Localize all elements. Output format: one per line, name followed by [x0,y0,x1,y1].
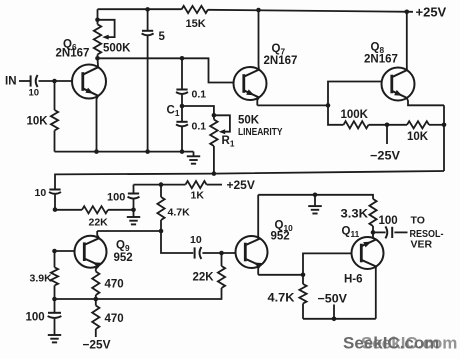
wire coupling cap to Q10 base [202,252,235,254]
svg-text:100: 100 [379,215,398,227]
wire Q11 top lead [373,232,376,239]
label 470 upper [105,279,124,291]
svg-text:IN: IN [5,76,17,88]
label 10 input cap [29,88,40,99]
label LINEARITY [238,126,283,138]
svg-text:Q11: Q11 [342,226,360,240]
svg-text:22K: 22K [89,217,109,229]
junction IN/10K/base [52,79,57,84]
svg-text:470: 470 [105,279,124,291]
wire C1 lower lead [181,127,183,152]
label TO [411,215,425,227]
label 3.9K [30,273,53,285]
label Q7 type [264,55,298,67]
resistor 10K right [387,121,444,128]
svg-text:+25V: +25V [227,178,255,192]
junction 100cap node [131,208,136,213]
label 22K vertical [193,272,215,284]
label 5 value [159,31,166,43]
svg-text:2N167: 2N167 [264,55,298,67]
svg-text:4.7K: 4.7K [168,207,191,219]
wire Q10 collector row [258,195,373,199]
svg-text:C1: C1 [167,105,180,119]
label Q8 type [364,54,398,66]
wire C1 upper lead [181,58,183,89]
wire Q6 emitter lead [97,96,99,152]
wire Q7 emitter lead [257,97,259,105]
wire Q10 collector lead [258,195,260,239]
svg-text:−50V: −50V [318,292,348,306]
junction Q11 base node [301,273,306,278]
svg-text:0.1: 0.1 [192,121,207,133]
junction rail / R1 bottom [212,171,217,176]
wire -25V stub [386,125,388,144]
label Q11 type H-6 [344,274,363,286]
svg-text:0.1: 0.1 [192,89,207,101]
svg-text:TO: TO [411,215,425,227]
wire output node [373,231,386,233]
label 470 lower [105,313,124,325]
wire Q9 emitter lead [96,265,99,271]
junction Q9 collector node [159,229,164,234]
junction top rail / Q8 collector (+25V) [405,10,410,15]
junction node A / C1 branch [180,56,185,61]
wire 100cap lower lead [133,199,135,209]
capacitor 100 bottom-left [48,313,62,318]
label VER [411,239,433,251]
wire 4.7K node down [161,231,193,253]
svg-text:470: 470 [105,313,124,325]
transistor Q6 2N167 [72,65,106,99]
label 0.1 upper [192,89,207,101]
svg-text:5: 5 [159,31,166,43]
svg-text:10K: 10K [407,131,429,143]
junction rail/3.9K/100cap [52,297,57,302]
ground bottom-left [48,335,61,342]
wire right side vertical [443,105,445,171]
wire +25V top rail [98,9,414,12]
label 10K right [407,131,429,143]
junction 10K / right rail [442,123,447,128]
power +25V mid [227,178,255,192]
junction Q9 base node [52,249,57,254]
svg-text:4.7K: 4.7K [268,293,296,305]
svg-text:500K: 500K [103,43,131,55]
junction rail/470 [94,297,99,302]
label Q11 ref [342,226,360,240]
junction Q11 collector node [371,230,376,235]
wire Q7 emitter row [257,104,328,106]
label 22K horizontal [89,217,109,229]
power +25V top [416,5,447,20]
wire Q9 collector lead [97,231,99,238]
svg-text:952: 952 [114,252,133,264]
junction rail/C1 [180,149,185,154]
label 15K value [186,18,206,30]
svg-text:100: 100 [26,312,45,324]
label Q6 type [56,48,90,60]
label RESOL- [410,228,444,240]
svg-text:1K: 1K [191,190,205,202]
wire Q8 emitter lead [407,98,444,105]
wire Q10 emitter row [258,274,303,276]
svg-text:SeekIC.com: SeekIC.com [343,334,439,353]
label 50K value [238,115,260,127]
svg-text:2N167: 2N167 [364,54,398,66]
wire Q10 emitter lead [258,266,260,275]
wire bottom-right rail [303,318,376,320]
label Q10 type [271,231,290,243]
resistor 4.7K bottom-right [299,275,306,319]
svg-text:3.3K: 3.3K [341,209,369,221]
power -25V mid right [370,149,400,163]
junction Q6 collector node [95,56,100,61]
svg-text:+25V: +25V [416,5,447,20]
resistor 22K vertical [218,253,225,299]
wire Q9 collector row [97,230,161,232]
capacitor 100 mid [128,194,140,199]
wire Q8 collector lead [406,12,408,70]
svg-text:50K: 50K [238,115,260,127]
power -25V bottom [83,338,111,352]
resistor 15K [182,6,209,13]
wire Q7 collector lead [258,10,260,70]
svg-text:2N167: 2N167 [56,48,90,60]
capacitor 100 output [385,226,392,238]
resistor 100K [344,121,388,128]
resistor 10K input [51,81,58,152]
wire 100cap to 4.7K node [134,184,162,186]
label 100 bottom-left [26,312,45,324]
wire 5-cap branch [147,9,149,151]
label 10 coupling [190,234,202,246]
wire Q9 bottom rail [55,298,222,300]
label 10K input [27,116,49,128]
junction R1 wiper [212,113,217,118]
svg-text:22K: 22K [193,272,215,284]
svg-text:VER: VER [411,239,433,251]
ground Q10 collector [308,195,322,214]
svg-text:−25V: −25V [370,149,400,163]
wire up to Q11 base [303,253,352,274]
label 100K [341,109,369,121]
label 4.7K bottom-right [268,293,296,305]
resistor 3.9K [51,251,58,299]
wire node to Q8 base [328,82,382,106]
capacitor 10 input [31,75,38,87]
resistor 22K horizontal [55,206,134,213]
capacitor C1 lower 0.1 [176,122,188,126]
junction collector row ground [313,193,318,198]
potentiometer R 500K [94,9,115,58]
svg-text:10K: 10K [27,116,49,128]
wire Q9 base [55,250,75,252]
svg-text:H-6: H-6 [344,274,363,286]
label Q9 type [114,252,133,264]
junction 500K wiper [95,18,100,23]
label 4.7K mid [168,207,191,219]
junction Q10 base node [219,251,224,256]
transistor Q9 952 [75,236,107,268]
resistor 470 upper [92,272,99,300]
svg-text:3.9K: 3.9K [30,273,53,285]
ground mid [127,210,140,225]
wire IN to Q6 base [39,80,73,82]
wire Q6 collector to Q7 base [98,58,234,82]
label Q7 ref [272,43,286,57]
svg-text:15K: 15K [186,18,206,30]
label Q9 ref [116,240,130,254]
wire node down to 100K [328,105,344,124]
label 1K [191,190,205,202]
wire 100cap upper lead [133,185,135,194]
junction rail/5-cap [145,149,150,154]
svg-text:R1: R1 [222,135,235,149]
svg-text:952: 952 [271,231,290,243]
label 0.1 lower [192,121,207,133]
capacitor 10 mid-left [49,190,61,194]
capacitor 5 [142,31,154,36]
wire 10cap to 22K node [54,195,56,210]
label 3.3K [341,209,369,221]
wire output lead [394,231,407,233]
label 100 output [379,215,398,227]
potentiometer R1 50K [210,115,230,173]
junction Q7 emitter node [326,103,331,108]
label Q10 ref [275,220,294,234]
label Q6 ref [63,39,77,53]
svg-text:LINEARITY: LINEARITY [238,126,283,138]
wire Q6 collector lead [97,58,100,67]
svg-text:10: 10 [35,187,47,199]
watermark SeekIC.com [343,334,457,353]
label R1 ref [222,135,235,149]
wire middle rail [55,171,444,189]
label 10 mid-left [35,187,47,199]
resistor 1K [161,181,222,188]
label 500K value [103,43,131,55]
resistor 4.7K mid [157,185,164,231]
transistor Q11 H-6 [352,237,384,269]
wire C1 node to R1 [182,106,214,120]
junction 100K/10K/-25V [385,123,390,128]
transistor Q7 2N167 [234,67,267,100]
svg-text:100: 100 [107,192,125,204]
svg-text:100K: 100K [341,109,369,121]
transistor Q8 2N167 [382,68,415,101]
resistor 470 lower [92,299,99,337]
capacitor 10 coupling [195,247,202,259]
port IN [5,76,17,88]
transistor Q10 952 [236,236,268,268]
resistor 3.3K [369,199,376,233]
ground top section [187,152,200,164]
power -50V [318,292,348,306]
wire 100cap-bl lower lead [54,319,56,335]
junction C1 mid node [180,104,185,109]
label Q8 ref [371,42,385,56]
capacitor C1 upper 0.1 [176,90,188,95]
junction -50V stub [332,317,337,322]
wire C1 mid lead [181,95,183,122]
junction rail/Q6 emitter [94,149,99,154]
wire -50V stub [333,305,335,319]
wire Q11 bottom lead [375,267,377,319]
wire ground rail top section [55,151,194,153]
wire 100cap-bl upper lead [54,299,56,313]
label C1 ref [167,105,180,119]
svg-text:10: 10 [29,88,40,99]
junction 22K left node [53,207,58,212]
junction 4.7K top node [159,182,164,187]
svg-text:−25V: −25V [83,338,111,352]
junction top rail / Q7 collector [256,8,261,13]
svg-text:10: 10 [190,234,202,246]
label 100 mid [107,192,125,204]
wire IN lead [19,80,30,82]
junction top rail / 5 cap [145,7,150,12]
